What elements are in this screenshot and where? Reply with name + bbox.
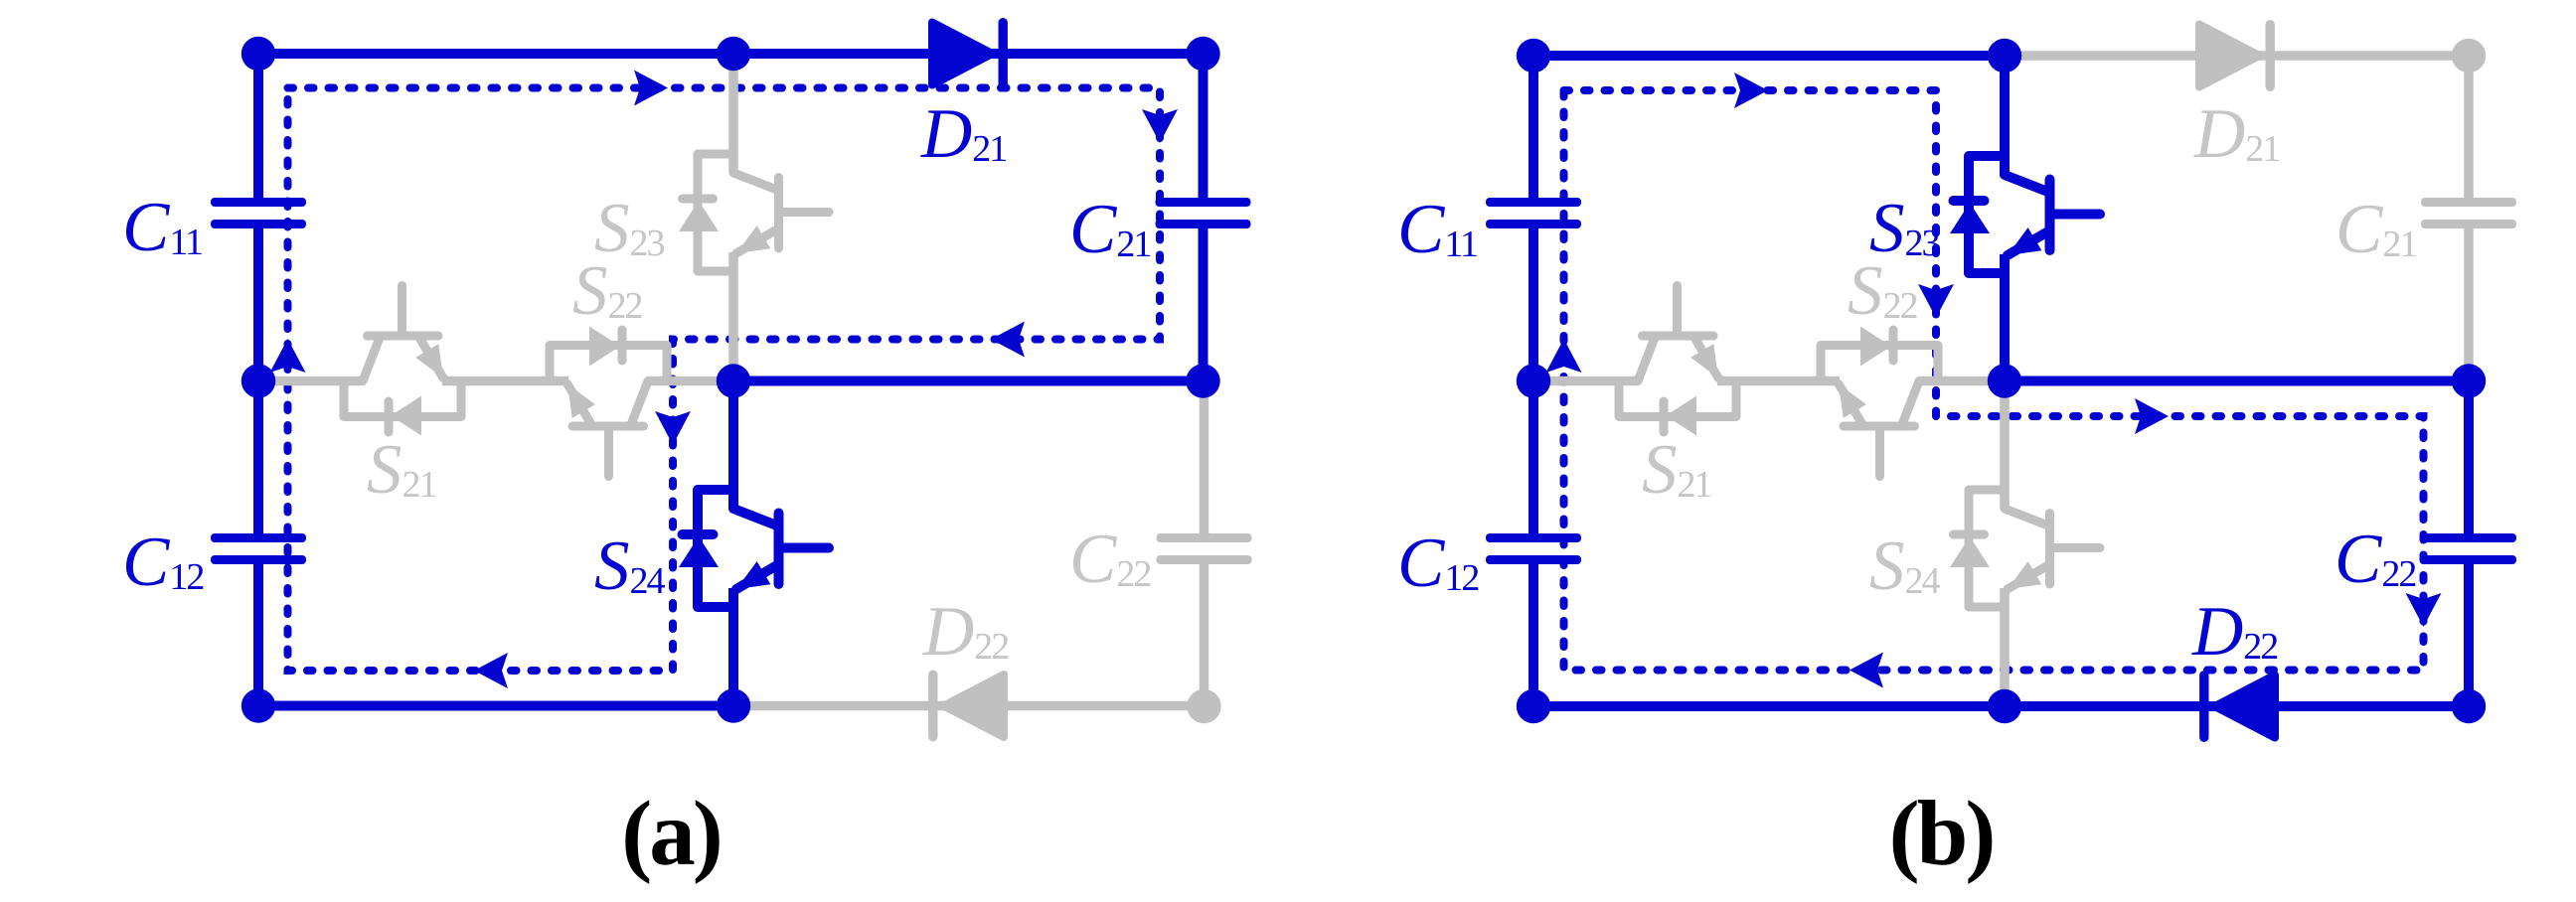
wire right rail lower blue (b) <box>2464 381 2474 538</box>
svg-text:S24: S24 <box>594 527 666 605</box>
wire bottom rail right gray (a) <box>733 701 1205 711</box>
wire right rail upper gray (b) <box>2464 56 2474 202</box>
node bottom-left (a) <box>241 688 275 722</box>
svg-text:S23: S23 <box>1869 190 1940 267</box>
node top-middle (b) <box>1988 39 2021 73</box>
svg-text:C21: C21 <box>1069 191 1150 268</box>
wire top rail right gray (b) <box>2005 51 2469 61</box>
capacitor C12 (a, blue) <box>211 533 306 564</box>
capacitor C22 (b, blue) <box>2421 533 2516 564</box>
capacitor C11 (b, blue) <box>1486 198 1581 228</box>
svg-text:S21: S21 <box>367 431 436 509</box>
wire middle rail right blue (b) <box>2005 376 2469 386</box>
diode D21 (a, blue) <box>932 18 1008 89</box>
arrow up on left dashed (b) <box>1546 339 1582 373</box>
node middle-right (b) <box>2452 364 2486 397</box>
wire left rail blue (b) <box>1529 56 1538 202</box>
transistor S23 (a, gray IGBT with diode) <box>679 154 829 271</box>
node bottom-right (b) <box>2452 689 2486 723</box>
gray middle rail left segments (a) <box>258 376 363 386</box>
arrow right on top dashed (b) <box>1734 73 1768 108</box>
gray middle rail left segments (b) <box>1533 376 1638 386</box>
arrow left on bottom dashed (b) <box>1850 653 1883 688</box>
svg-text:C11: C11 <box>1397 191 1477 268</box>
dashed current loop (a) <box>288 88 1161 672</box>
svg-text:D21: D21 <box>2193 95 2279 173</box>
node top-middle (a) <box>717 37 750 71</box>
svg-text:C22: C22 <box>2334 521 2415 598</box>
svg-text:C21: C21 <box>2335 191 2416 268</box>
node middle-middle (a) <box>717 364 750 397</box>
arrow down on right dashed (b) <box>2406 593 2442 627</box>
wire bottom rail blue (b) <box>1533 701 2469 711</box>
wire S24 column blue (a) <box>728 381 738 510</box>
wire S23 column blue (b) <box>2000 56 2010 175</box>
dashed current loop (b) <box>1564 90 2424 671</box>
wire right rail lower gray (a) <box>1200 381 1209 535</box>
arrow down on right dashed (a) <box>1142 109 1178 143</box>
wire S24 column gray (b) <box>2000 381 2010 510</box>
arrow left on middle dashed (a) <box>991 322 1025 358</box>
svg-text:C12: C12 <box>122 524 203 601</box>
transistor S22 (a, gray IGBT with diode) <box>550 327 667 477</box>
transistor S24 (b, gray IGBT with diode) <box>1950 490 2100 607</box>
arrow right on middle dashed (b) <box>2135 398 2169 434</box>
svg-text:C22: C22 <box>1069 521 1150 598</box>
transistor S21 (b, gray IGBT with diode) <box>1619 286 1736 436</box>
wire bottom rail left blue (a) <box>258 701 733 711</box>
node bottom-middle (b) <box>1988 689 2021 723</box>
wire top rail blue (a) <box>258 49 1204 59</box>
wire right rail upper blue (a) <box>1199 54 1208 202</box>
arrow down on inner dashed (b) <box>1918 284 1954 318</box>
node middle-left (a) <box>241 364 275 397</box>
node top-left (b) <box>1517 39 1550 73</box>
node top-left (a) <box>241 37 275 71</box>
arrow down on inner dashed (a) <box>655 411 691 445</box>
diode D22 (a, gray) <box>928 671 1004 742</box>
arrow left on bottom dashed (a) <box>474 653 508 688</box>
svg-text:(b): (b) <box>1889 783 1994 885</box>
arrow up on left dashed (a) <box>270 339 306 373</box>
arrow right on top dashed (a) <box>634 71 668 106</box>
svg-text:(a): (a) <box>621 783 720 885</box>
transistor S22 (b, gray IGBT with diode) <box>1821 327 1938 477</box>
node bottom-middle (a) <box>717 688 750 722</box>
diode D21 (b, gray) <box>2199 20 2275 91</box>
svg-text:C11: C11 <box>122 189 202 266</box>
node bottom-right (a, gray) <box>1187 689 1220 723</box>
transistor S21 (a, gray IGBT with diode) <box>344 286 461 436</box>
svg-text:D22: D22 <box>2191 593 2277 671</box>
svg-text:C12: C12 <box>1397 525 1478 602</box>
node top-right (b, gray) <box>2452 39 2486 73</box>
capacitor C21 (b, gray) <box>2421 198 2516 228</box>
node middle-right (a) <box>1186 364 1219 397</box>
node bottom-left (b) <box>1517 689 1550 723</box>
node middle-middle (b) <box>1988 364 2021 397</box>
svg-text:D22: D22 <box>922 593 1008 671</box>
capacitor C12 (b, blue) <box>1486 533 1581 564</box>
diode D22 (b, blue) <box>2199 671 2275 742</box>
node middle-left (b) <box>1517 364 1550 397</box>
transistor S23 (b, blue IGBT with diode) <box>1950 156 2100 273</box>
svg-text:D21: D21 <box>920 95 1006 173</box>
wire middle rail right blue (a) <box>733 376 1204 386</box>
capacitor C21 (a, blue) <box>1156 198 1251 228</box>
svg-text:S21: S21 <box>1642 431 1711 509</box>
capacitor C22 (a, gray) <box>1157 533 1252 564</box>
svg-text:S24: S24 <box>1869 527 1941 605</box>
node top-right (a) <box>1186 37 1219 71</box>
svg-text:S23: S23 <box>594 190 665 267</box>
wire top rail left blue (b) <box>1533 51 2005 61</box>
capacitor C11 (a, blue) <box>211 198 306 228</box>
transistor S24 (a, blue IGBT with diode) <box>679 490 829 607</box>
wire left rail blue (a) <box>253 54 263 202</box>
wire S23 column gray (a) <box>728 54 738 173</box>
